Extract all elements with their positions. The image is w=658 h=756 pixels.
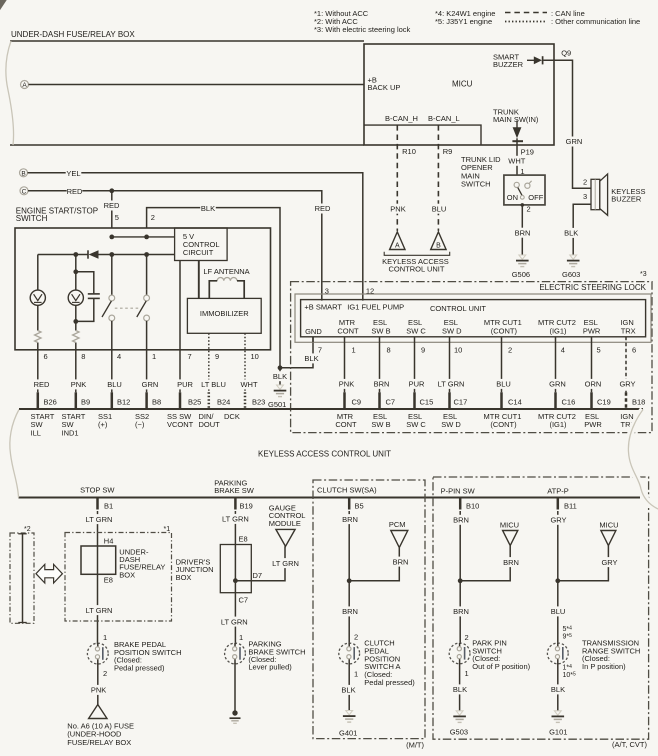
wire color label PNK — [71, 379, 87, 389]
diode D1 — [88, 250, 99, 258]
keyless unit torn left edge — [10, 410, 19, 498]
wire color label GRN — [549, 379, 566, 389]
driver's junction box — [220, 545, 251, 593]
svg-text:R9: R9 — [443, 147, 453, 156]
svg-text:*5: J35Y1 engine: *5: J35Y1 engine — [435, 17, 492, 26]
connector tick keyless top — [75, 392, 78, 409]
svg-text:BLK: BLK — [551, 685, 565, 694]
svg-text:PNK: PNK — [71, 380, 86, 389]
keyless unit top edge — [19, 408, 643, 410]
ESL control unit inner box — [301, 300, 646, 337]
connector circle B — [20, 169, 28, 178]
resistor R-LED1 — [35, 331, 41, 343]
svg-text:1: 1 — [465, 669, 469, 678]
svg-text:1: 1 — [103, 633, 107, 642]
svg-text:B19: B19 — [240, 502, 253, 511]
svg-text:PNK: PNK — [339, 380, 354, 389]
svg-text:P-PIN SW: P-PIN SW — [441, 486, 476, 495]
keyless access triangle B — [431, 232, 446, 250]
under-dash fuse/relay box bottom edge — [10, 144, 364, 146]
svg-text:LT GRN: LT GRN — [86, 515, 113, 524]
option box A/T CVT dash-dot — [433, 477, 649, 739]
wire trunk main sw to P19 — [516, 138, 518, 175]
wire brake pedal switch to fuse — [97, 663, 99, 705]
5V control circuit box — [175, 228, 228, 261]
label BRN trunk — [515, 228, 531, 238]
wire SS1 lower to pin 4 — [111, 321, 113, 392]
wire color label LT BLU — [199, 379, 227, 389]
wire BLK junction to ESL GND pin 7 — [280, 337, 313, 368]
svg-text:1: 1 — [352, 346, 356, 355]
wire immobilizer pin 9 dotted — [208, 333, 210, 392]
svg-text:10: 10 — [251, 352, 259, 361]
label GRN on buzzer wire — [566, 137, 583, 147]
svg-text:2: 2 — [465, 633, 469, 642]
svg-text:2: 2 — [527, 204, 531, 213]
wire color label PNK — [339, 379, 355, 389]
wire SS2 lower to pin 1 — [146, 321, 148, 392]
svg-text:2: 2 — [354, 633, 358, 642]
svg-text:UNDER-DASH FUSE/RELAY BOX: UNDER-DASH FUSE/RELAY BOX — [11, 30, 135, 39]
ground G503 symbol — [453, 711, 466, 723]
svg-text:*2: *2 — [24, 526, 31, 533]
connector tick — [625, 392, 628, 409]
label R10 — [401, 147, 417, 157]
legend other-communication line sample — [505, 21, 547, 23]
wire LED2 branch — [75, 255, 77, 393]
svg-text:DCK: DCK — [224, 412, 240, 421]
svg-text:MTR CONT: MTR CONT — [337, 318, 359, 335]
svg-text:B12: B12 — [117, 397, 130, 406]
connector circle C — [20, 187, 28, 196]
keyless buzzer body — [591, 174, 608, 215]
svg-text:BRN: BRN — [393, 557, 409, 566]
svg-text:(M/T): (M/T) — [406, 740, 424, 749]
svg-text:BLK: BLK — [453, 685, 467, 694]
label BLU atp lower — [550, 606, 566, 616]
wire MICU to atp junction — [558, 546, 609, 581]
label BRN pcm branch — [393, 557, 409, 567]
svg-text:C15: C15 — [420, 397, 434, 406]
ground G603 symbol — [567, 255, 580, 267]
svg-text:MICU: MICU — [452, 80, 473, 89]
svg-text:B18: B18 — [632, 397, 645, 406]
wire ESL pin 9 to keyless unit — [414, 337, 416, 393]
svg-text:PNK: PNK — [390, 204, 405, 213]
label BLK p-pin — [452, 684, 468, 694]
svg-text:RED: RED — [34, 380, 50, 389]
switch contact SS1 — [102, 295, 115, 321]
svg-text:B-CAN_L: B-CAN_L — [428, 114, 460, 123]
label BLK top — [200, 204, 216, 214]
junction node LED2 branch — [73, 252, 78, 257]
svg-text:B24: B24 — [217, 397, 230, 406]
trunk switch bottom contact — [520, 195, 524, 199]
connector tick — [554, 392, 557, 409]
svg-text:C19: C19 — [597, 397, 611, 406]
ESL control unit outer box — [295, 294, 651, 342]
immobilizer box — [187, 298, 261, 333]
svg-text:7: 7 — [188, 352, 192, 361]
option box *1 dashed — [65, 533, 172, 622]
wire ESL pin 6 to keyless unit — [625, 337, 627, 393]
svg-text:CONTROL UNIT: CONTROL UNIT — [430, 304, 486, 313]
PCM triangle — [391, 531, 408, 548]
svg-text:B: B — [21, 171, 25, 178]
diode smart buzzer output — [527, 56, 543, 64]
svg-text:MTR CONT: MTR CONT — [335, 412, 357, 429]
svg-text:C9: C9 — [352, 397, 362, 406]
svg-text:B1: B1 — [104, 502, 113, 511]
svg-text:P19: P19 — [521, 148, 534, 157]
svg-text:Q9: Q9 — [561, 49, 571, 58]
svg-text:LF ANTENNA: LF ANTENNA — [203, 267, 249, 276]
svg-text:9: 9 — [215, 352, 219, 361]
wire ESL pin 8 to keyless unit — [379, 337, 381, 393]
junction node pin2 line2 — [144, 252, 149, 257]
svg-text:MICU: MICU — [500, 520, 519, 529]
junction node BLK/G501 — [278, 365, 283, 370]
wire buzzer pin 3 (BLK) to G603 — [573, 204, 591, 255]
svg-text:4: 4 — [117, 352, 121, 361]
ground G501 symbol — [274, 385, 287, 397]
svg-text:(A/T, CVT): (A/T, CVT) — [612, 740, 648, 749]
trunk switch blade — [518, 188, 522, 196]
svg-text:C7: C7 — [386, 397, 396, 406]
svg-text:PARKING BRAKE SW: PARKING BRAKE SW — [214, 478, 255, 495]
svg-text:BRN: BRN — [342, 515, 358, 524]
engine start/stop switch box — [15, 228, 271, 350]
svg-text:2: 2 — [151, 213, 155, 222]
svg-text:B8: B8 — [152, 397, 161, 406]
connector tick keyless top — [37, 392, 40, 409]
svg-text:LT GRN: LT GRN — [272, 559, 299, 568]
junction node clutch — [347, 578, 352, 583]
svg-text:GRN: GRN — [142, 380, 159, 389]
svg-text:RED: RED — [315, 204, 331, 213]
svg-text:G506: G506 — [512, 270, 530, 279]
wire color label WHT — [240, 379, 257, 389]
wire color label RED — [34, 379, 50, 389]
junction node cap bottom — [73, 319, 78, 324]
svg-text:7: 7 — [318, 346, 322, 355]
svg-text:LT GRN: LT GRN — [438, 380, 465, 389]
junction at trunk switch pin 2 — [521, 203, 525, 207]
svg-text:G101: G101 — [549, 728, 567, 737]
wire 5V to immobilizer — [198, 261, 200, 299]
connector tick keyless top — [179, 392, 182, 409]
svg-text:B10: B10 — [466, 502, 479, 511]
svg-text:2: 2 — [103, 669, 107, 678]
wire transmission range switch to ground — [557, 663, 559, 710]
label LT GRN stop sw — [85, 514, 113, 524]
svg-text:BLU: BLU — [551, 607, 566, 616]
svg-text:LT GRN: LT GRN — [86, 606, 113, 615]
svg-text:IMMOBILIZER: IMMOBILIZER — [200, 309, 249, 318]
resistor R-LED2 — [73, 331, 79, 343]
svg-text:CLUTCH SW(SA): CLUTCH SW(SA) — [317, 486, 377, 495]
wire B (YEL) to ESL pin 12 — [28, 173, 363, 301]
svg-text:4: 4 — [561, 346, 565, 355]
gauge control module triangle — [276, 529, 295, 546]
svg-text:ELECTRIC STEERING LOCK: ELECTRIC STEERING LOCK — [539, 283, 646, 292]
connector tick B19 — [234, 498, 237, 510]
no-lock pass-through wire — [18, 534, 26, 623]
wire to gauge control module — [235, 546, 285, 580]
connector tick keyless top — [244, 392, 247, 409]
wire RED drop to start/stop switch pin 5 — [111, 191, 113, 228]
label BLK buzzer — [563, 228, 579, 238]
svg-text:BRN: BRN — [503, 558, 519, 567]
keyless unit torn right edge — [628, 410, 658, 510]
wire BLK from pin 2 to ESL GND branch — [147, 208, 280, 368]
svg-text:BLU: BLU — [496, 380, 511, 389]
label GRY atp upper — [550, 515, 566, 525]
svg-text:GRY: GRY — [550, 515, 566, 524]
svg-text:BRN: BRN — [453, 515, 469, 524]
connector circle A — [21, 81, 29, 90]
wire color label GRY — [619, 379, 635, 389]
svg-text:BLU: BLU — [432, 204, 447, 213]
junction node pin2 line1 — [144, 235, 149, 240]
svg-text:SS SW VCONT: SS SW VCONT — [167, 412, 194, 429]
svg-text:RED: RED — [104, 201, 120, 210]
label BRN clutch lower — [342, 606, 358, 616]
svg-text:B: B — [436, 243, 441, 250]
svg-text:10: 10 — [454, 346, 462, 355]
wire ESL pin 10 to keyless unit — [449, 337, 451, 393]
junction node cap top — [73, 269, 78, 274]
svg-text:BLK: BLK — [201, 204, 215, 213]
svg-text:STOP SW: STOP SW — [80, 485, 115, 494]
ground parking brake (dot) — [230, 710, 241, 723]
svg-text:G401: G401 — [339, 728, 357, 737]
wire C (RED) to ESL pin 3 — [28, 191, 322, 301]
B-CAN_H dashed wire to R10 — [396, 125, 398, 231]
transmission range switch symbol — [547, 643, 568, 664]
svg-text:BLK: BLK — [564, 229, 578, 238]
svg-text:BLK: BLK — [304, 354, 318, 363]
keyless access triangle A — [390, 232, 405, 250]
wire color label BRN — [374, 379, 390, 389]
svg-text:: Other communication line: : Other communication line — [551, 17, 640, 26]
svg-text:*1: *1 — [164, 526, 171, 533]
svg-text:9: 9 — [421, 346, 425, 355]
label PNK brake — [91, 685, 107, 695]
svg-text:LT GRN: LT GRN — [222, 515, 249, 524]
label WHT — [508, 156, 525, 166]
svg-text:ESL PWR: ESL PWR — [583, 318, 601, 335]
svg-text:B26: B26 — [44, 397, 57, 406]
svg-text:8: 8 — [81, 352, 85, 361]
svg-text:G501: G501 — [268, 400, 286, 409]
svg-text:IG1 FUEL PUMP: IG1 FUEL PUMP — [347, 302, 404, 311]
svg-text:GRY: GRY — [619, 380, 635, 389]
svg-text:3: 3 — [583, 192, 587, 201]
svg-text:A: A — [22, 82, 27, 89]
svg-text:BRN: BRN — [342, 607, 358, 616]
wire stop sw column — [97, 511, 99, 644]
svg-text:6: 6 — [44, 352, 48, 361]
svg-text:YEL: YEL — [66, 169, 80, 178]
svg-text:2: 2 — [583, 178, 587, 187]
wire color label BLU — [496, 379, 512, 389]
label LT GRN gauge — [271, 558, 299, 568]
junction node on wire C — [109, 188, 114, 193]
svg-text:E8: E8 — [104, 576, 113, 585]
ground G506 symbol — [516, 255, 529, 267]
switch contact SS2 — [137, 295, 150, 321]
label BRN p-pin upper — [453, 515, 469, 525]
wire color label LT GRN — [437, 379, 465, 389]
connector tick B1 — [96, 498, 99, 510]
park pin switch symbol — [449, 643, 470, 664]
connector tick — [500, 392, 503, 409]
label RED on ESL pin3 drop — [315, 204, 331, 214]
wire PCM to junction — [349, 548, 399, 581]
svg-text:SMART BUZZER: SMART BUZZER — [493, 52, 524, 69]
MICU triangle p-pin — [503, 531, 518, 546]
svg-text:*3: *3 — [640, 271, 647, 278]
connector tick B5 — [348, 498, 351, 510]
svg-text:BRN: BRN — [515, 228, 531, 237]
ground G401 symbol — [343, 711, 356, 723]
svg-text:ESL SW D: ESL SW D — [441, 412, 461, 429]
svg-text:PCM: PCM — [389, 520, 406, 529]
svg-text:MICU: MICU — [599, 520, 618, 529]
clutch pedal position switch symbol — [339, 643, 360, 664]
label R9 — [442, 147, 453, 157]
wire ESL pin 4 to keyless unit — [555, 337, 557, 393]
label RED pin5 — [104, 201, 120, 211]
svg-text:GRN: GRN — [549, 380, 566, 389]
svg-text:6: 6 — [632, 346, 636, 355]
svg-text:5: 5 — [115, 213, 119, 222]
label BLK G501 — [272, 371, 288, 381]
svg-text:GRY: GRY — [601, 558, 617, 567]
svg-text:PUR: PUR — [409, 380, 425, 389]
internal junction line pins 5-2 to 5V circuit — [112, 236, 175, 238]
label BLK atp — [550, 684, 566, 694]
under-dash torn left edge — [6, 41, 14, 145]
svg-text:RED: RED — [67, 187, 83, 196]
wire ESL pin 2 to keyless unit — [501, 337, 503, 393]
connector tick keyless top — [145, 392, 148, 409]
trunk switch contact left — [514, 182, 519, 187]
svg-text:1: 1 — [239, 633, 243, 642]
trunk switch contact right — [525, 181, 532, 188]
LED indicator START SW ILL — [30, 290, 45, 305]
svg-text:C14: C14 — [508, 397, 522, 406]
brake pedal position switch symbol — [87, 643, 108, 664]
svg-text:B9: B9 — [81, 397, 90, 406]
wire LED1 branch — [37, 255, 39, 393]
wire color label BLU — [107, 379, 123, 389]
junction node p-pin — [458, 578, 463, 583]
svg-text:BRN: BRN — [374, 380, 390, 389]
svg-text:1: 1 — [354, 670, 358, 679]
capacitor C1 — [88, 294, 100, 299]
LF antenna coil — [217, 278, 237, 281]
MICU box outline — [364, 44, 554, 145]
wire p-pin column — [459, 511, 461, 644]
svg-text:KEYLESS ACCESS CONTROL UNIT: KEYLESS ACCESS CONTROL UNIT — [258, 449, 391, 458]
wire parking brake switch to ground — [234, 663, 236, 713]
option box *2 dash-dot — [10, 533, 34, 623]
svg-text:G503: G503 — [450, 728, 468, 737]
svg-text:ESL SW D: ESL SW D — [442, 318, 462, 335]
label LT GRN lower — [85, 605, 113, 615]
svg-text:OFF: OFF — [528, 193, 543, 202]
wire color label GRN — [142, 379, 159, 389]
wire color label ORN — [585, 379, 602, 389]
svg-text:B-CAN_H: B-CAN_H — [385, 114, 418, 123]
wire clutch column — [348, 511, 350, 644]
connector tick keyless top — [111, 392, 114, 409]
wire atp column — [557, 511, 559, 643]
label BRN micu branch — [503, 557, 519, 567]
connector tick — [378, 392, 381, 409]
svg-text:B23: B23 — [252, 397, 265, 406]
connector tick B11 — [557, 498, 560, 510]
svg-text:*3: With electric steering loc: *3: With electric steering lock — [314, 25, 411, 34]
wire MICU to p-pin junction — [460, 546, 510, 581]
connector tick — [590, 392, 593, 409]
switch mechanical link dashes — [115, 307, 139, 309]
svg-text:WHT: WHT — [508, 157, 525, 166]
label LT GRN parking — [221, 514, 249, 524]
svg-text:GRN: GRN — [566, 137, 583, 146]
connector tick P19 — [512, 140, 523, 142]
label YEL — [66, 169, 82, 179]
wire ESL pin 5 to keyless unit — [591, 337, 593, 393]
wire color label PUR — [409, 379, 425, 389]
svg-text:1: 1 — [152, 352, 156, 361]
B-CAN_L dashed wire to R9 — [437, 125, 439, 231]
label BRN clutch upper — [342, 514, 358, 524]
svg-text:WHT: WHT — [240, 380, 257, 389]
connector tick — [448, 392, 451, 409]
label BLU keyless B — [431, 204, 447, 214]
wire SS2 upper — [146, 255, 148, 296]
label RED on wire C — [67, 187, 83, 197]
label GRY micu branch — [601, 557, 617, 567]
trunk main switch signal arrow — [513, 121, 522, 139]
junction node pin5 line2 — [109, 252, 114, 257]
wire A to MICU +B BACK UP — [29, 84, 365, 86]
connector tick — [413, 392, 416, 409]
page corner mark — [0, 0, 6, 9]
svg-text:PUR: PUR — [177, 380, 193, 389]
option box M/T dash-dot — [313, 480, 425, 739]
svg-text:H4: H4 — [104, 536, 114, 545]
internal line LEDs-diode to 5V circuit — [38, 254, 175, 256]
svg-text:BLU: BLU — [107, 380, 122, 389]
label LT GRN lower parking — [220, 617, 248, 627]
connector tick B10 — [459, 498, 462, 510]
svg-text:5: 5 — [597, 346, 601, 355]
keyless unit bottom edge — [19, 497, 641, 499]
svg-text:LT BLU: LT BLU — [201, 380, 226, 389]
svg-text:C17: C17 — [454, 397, 468, 406]
wire color label PUR — [177, 379, 193, 389]
svg-text:PNK: PNK — [91, 686, 106, 695]
svg-text:ATP-P: ATP-P — [547, 486, 569, 495]
svg-text:B5: B5 — [355, 502, 364, 511]
under-dash fuse/relay box top edge — [10, 40, 364, 42]
wire ESL GND pin 7 stub — [312, 337, 314, 343]
wire immobilizer pin 10 dotted — [244, 333, 246, 392]
